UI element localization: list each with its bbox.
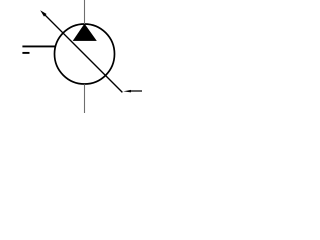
bottom port stub xyxy=(84,84,86,113)
leader arrowhead xyxy=(123,90,131,93)
variable displacement arrow shaft xyxy=(43,13,122,92)
left short dash xyxy=(22,52,29,54)
leader arrow shaft xyxy=(130,90,143,92)
pump flow triangle (filled, pointing up) xyxy=(73,24,96,40)
pump circle xyxy=(55,24,115,84)
variable displacement arrowhead xyxy=(40,10,46,16)
left port line xyxy=(22,45,55,47)
top port stub xyxy=(84,0,86,24)
